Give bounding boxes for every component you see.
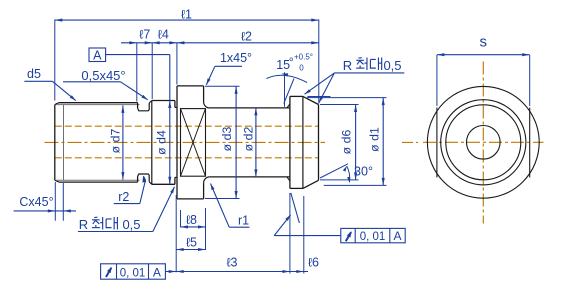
svg-text:A: A — [153, 265, 161, 279]
svg-text:ø d4: ø d4 — [155, 130, 169, 155]
svg-text:0,5: 0,5 — [122, 217, 140, 232]
svg-text:0, 01: 0, 01 — [120, 267, 146, 279]
svg-text:ℓ2: ℓ2 — [241, 30, 252, 44]
svg-text:R: R — [79, 217, 88, 232]
svg-text:0,5: 0,5 — [383, 58, 401, 73]
svg-text:ø d3: ø d3 — [220, 127, 234, 152]
svg-text:r1: r1 — [238, 214, 249, 228]
svg-text:A: A — [93, 48, 102, 62]
svg-text:30°: 30° — [354, 165, 373, 179]
svg-text:ℓ1: ℓ1 — [181, 7, 192, 21]
svg-text:ℓ6: ℓ6 — [308, 256, 319, 270]
svg-text:1x45°: 1x45° — [220, 51, 252, 65]
svg-text:0: 0 — [299, 64, 304, 73]
svg-text:0, 01: 0, 01 — [360, 231, 386, 243]
svg-text:R: R — [343, 58, 352, 73]
svg-text:ℓ8: ℓ8 — [186, 213, 197, 227]
svg-text:d5: d5 — [27, 67, 41, 81]
svg-text:°: ° — [289, 56, 294, 70]
svg-text:ø d2: ø d2 — [242, 127, 256, 152]
svg-text:ℓ7: ℓ7 — [139, 28, 150, 42]
svg-text:0,5x45°: 0,5x45° — [81, 68, 125, 83]
svg-text:ø d1: ø d1 — [367, 127, 381, 152]
svg-text:A: A — [393, 229, 401, 243]
svg-text:ø d6: ø d6 — [340, 130, 354, 155]
svg-text:r2: r2 — [118, 190, 129, 204]
svg-text:ℓ3: ℓ3 — [227, 256, 238, 270]
svg-text:ℓ4: ℓ4 — [158, 28, 169, 42]
svg-text:s: s — [480, 34, 488, 51]
svg-text:ℓ5: ℓ5 — [186, 236, 197, 250]
svg-text:Cx45°: Cx45° — [19, 195, 53, 209]
svg-text:ø d7: ø d7 — [109, 129, 123, 154]
svg-text:+0.5°: +0.5° — [294, 53, 313, 62]
